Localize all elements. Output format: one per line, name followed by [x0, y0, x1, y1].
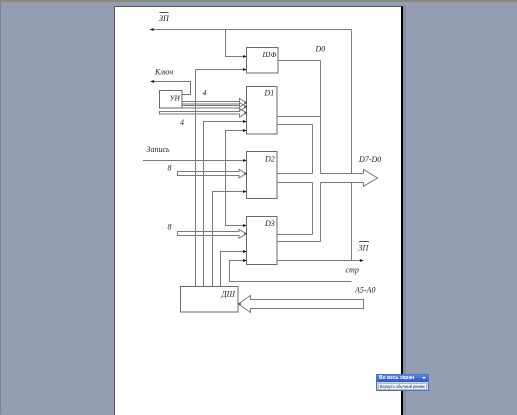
arrow into D1 in2	[243, 129, 247, 132]
wire D3 output 1	[277, 234, 313, 236]
bus D7-D0 body top line right segment	[321, 173, 364, 175]
arrow into D3 in2	[243, 250, 247, 253]
bus A5-A0 into ДШ	[239, 296, 364, 313]
arrow into D3 in1	[243, 224, 247, 227]
wire D1 output 1	[277, 116, 321, 118]
wire ЗП riser to ШФ input 1	[226, 30, 247, 57]
svg-text:ЗП: ЗП	[159, 14, 170, 23]
top strip	[0, 0, 517, 2]
wire Ключ from УИ	[151, 82, 191, 95]
wire Запись into D2	[143, 160, 247, 162]
bus D7-D0 body bottom line right segment	[321, 182, 364, 184]
bus УИ arrow 3 outline	[160, 108, 247, 117]
bus 8-bit into D2	[178, 169, 247, 178]
svg-text:D7-D0: D7-D0	[358, 155, 381, 164]
nub at УИ bus1 tip	[245, 102, 247, 104]
nub at УИ bus2 tip	[245, 106, 247, 108]
wire ЗП vertical right side upper	[351, 30, 353, 174]
nub at A5-A0 bus tip	[238, 303, 240, 305]
svg-text:D1: D1	[264, 89, 275, 98]
block ШФ	[247, 48, 279, 74]
wire D3 output 2	[277, 241, 321, 243]
svg-text:A5-A0: A5-A0	[354, 286, 375, 295]
page right shadow	[403, 6, 406, 414]
arrow right ЗП bottom	[360, 259, 364, 262]
bus УИ arrows white fill	[182, 99, 247, 108]
wire vertical bus left line x=312.5 upper	[312, 125, 314, 174]
svg-text:D3: D3	[264, 219, 275, 228]
svg-text:ШФ: ШФ	[262, 50, 277, 59]
bus D7-D0 arrowhead	[364, 169, 378, 186]
svg-text:4: 4	[180, 118, 184, 127]
wire vertical bus right line x=320.5 lower	[320, 183, 322, 242]
wire ЗП top horizontal	[150, 29, 352, 31]
bus УИ arrow 1 outline	[182, 99, 247, 108]
block УИ	[160, 91, 183, 109]
bus 8-bit into D3	[178, 229, 247, 238]
arrow left Ключ	[150, 80, 154, 83]
wire D3 input 2 from ДШ bundle	[221, 252, 247, 287]
wire D2 thin input from ДШ bundle	[213, 192, 247, 287]
block D3	[247, 217, 278, 265]
bus УИ arrow 2 outline	[182, 103, 247, 112]
svg-text:стр: стр	[346, 266, 359, 275]
arrow into D2 Запись	[243, 159, 247, 162]
svg-text:ДШ: ДШ	[221, 290, 236, 299]
bus D7-D0 body top line left segment	[277, 173, 313, 175]
wire D1 output 2	[277, 124, 313, 126]
arrow into D2 thin	[243, 190, 247, 193]
nub at D3 8-bus tip	[245, 233, 247, 235]
nub at D2 8-bus tip	[245, 172, 247, 174]
wire ШФ output D0	[278, 60, 321, 62]
block D2	[247, 152, 278, 199]
svg-text:D0: D0	[315, 45, 326, 54]
svg-text:8: 8	[168, 223, 172, 232]
wire D1 input 2 / D3 input 1 riser	[226, 131, 247, 226]
wire ЗП vertical right side lower	[351, 183, 353, 261]
block D1	[247, 87, 278, 135]
svg-text:УИ: УИ	[170, 94, 181, 103]
svg-text:ЗП: ЗП	[359, 244, 370, 253]
block ДШ	[181, 287, 239, 313]
arrow into D1 in1	[243, 120, 247, 123]
wire D3 input 3 and стр line	[230, 261, 352, 282]
arrow into ШФ in2	[243, 68, 247, 71]
document page	[114, 6, 403, 415]
wire ЗП bottom out of D3	[277, 260, 363, 262]
svg-text:Ключ: Ключ	[154, 68, 173, 77]
bus D7-D0 body bottom line left segment	[277, 182, 313, 184]
wire vertical bus right line x=320.5 upper	[320, 61, 322, 174]
arrow into ШФ in1	[243, 55, 247, 58]
floating toolbar Во весь экран	[376, 374, 429, 391]
wire ШФ input 2	[196, 69, 247, 71]
wire D1 input 1 from ДШ bundle	[204, 122, 247, 287]
wire vertical bus left line x=312.5 lower	[312, 183, 314, 235]
svg-text:4: 4	[203, 89, 207, 98]
overline of ЗП bottom	[359, 241, 369, 243]
svg-text:Запись: Запись	[147, 145, 171, 154]
svg-text:8: 8	[168, 164, 172, 173]
svg-text:D2: D2	[264, 155, 275, 164]
arrow left ЗП top	[150, 28, 154, 31]
wire vertical bundle line to ДШ (from ШФ in2)	[195, 70, 197, 287]
overline of ЗП top	[160, 12, 169, 14]
nub at УИ bus3 tip	[245, 112, 247, 114]
arrow into D3 in3	[243, 259, 247, 262]
window left edge	[0, 0, 1, 414]
